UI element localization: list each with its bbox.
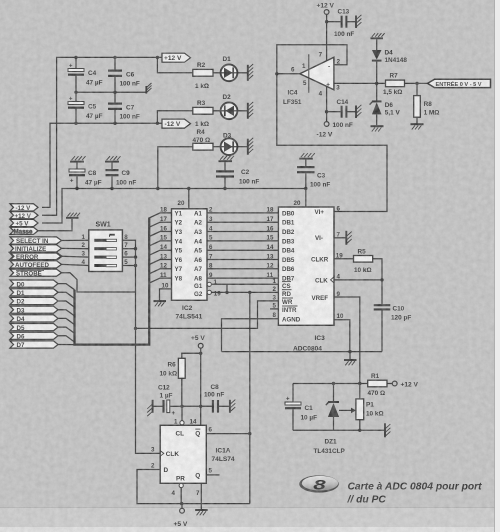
connector flag +12V [10, 212, 38, 220]
svg-text:1: 1 [214, 279, 218, 286]
svg-text:10 kΩ: 10 kΩ [160, 371, 178, 378]
wire pin4 supply [326, 87, 328, 112]
pin 20 IC2 [178, 189, 189, 209]
wire bus to IC2 pin12 [149, 269, 171, 274]
connector flag ERROR [10, 253, 62, 261]
node CS/RD net [248, 291, 251, 294]
ground above C8 [70, 156, 86, 161]
svg-text:12: 12 [160, 263, 167, 270]
node on +12V rail at C4 [74, 56, 77, 59]
svg-text:LF351: LF351 [283, 99, 302, 106]
wire R3 to D2 [213, 110, 221, 112]
ground at C14 [356, 105, 361, 118]
svg-text:D4: D4 [385, 49, 394, 56]
node +5V rail C9 [110, 187, 113, 190]
wire A4-DB3 [194, 235, 278, 246]
svg-text:Y1: Y1 [175, 210, 183, 217]
pin 10 IC2 to ground [160, 283, 172, 301]
svg-text:2: 2 [273, 286, 277, 293]
ground right of C8 [230, 400, 235, 413]
wire bus to IC2 pin11 [149, 278, 171, 283]
wire SW1 pin8 to common [122, 240, 160, 453]
wire ground mid rail [76, 91, 146, 93]
svg-text:6: 6 [337, 205, 341, 212]
svg-text:C2: C2 [241, 169, 250, 176]
svg-text:10: 10 [162, 283, 169, 290]
wire D input [137, 470, 250, 504]
capacitor C5 [68, 92, 103, 123]
pin G2 with bubble [194, 290, 278, 298]
node on +12V rail at C6 [113, 56, 116, 59]
resistor R8 [414, 83, 440, 123]
svg-text:D1: D1 [223, 56, 232, 63]
capacitor C6 [108, 57, 140, 92]
svg-text:2: 2 [337, 59, 341, 66]
svg-text:C3: C3 [317, 173, 326, 180]
svg-text:1: 1 [82, 234, 86, 241]
capacitor C7 [108, 92, 140, 123]
svg-text:-: - [328, 64, 330, 71]
dip switch SW1 [89, 222, 123, 272]
svg-text:C14: C14 [337, 99, 349, 106]
wire pin1 CL [181, 406, 183, 420]
svg-text:C1: C1 [305, 405, 314, 412]
svg-text:3: 3 [336, 85, 340, 92]
op-amp IC4 [283, 52, 341, 106]
svg-text:+12 V: +12 V [15, 213, 32, 220]
svg-text:+12 V: +12 V [164, 55, 182, 62]
node D4/D6/R7 [375, 82, 378, 85]
node +5V rail C3/IC3 pin20 [304, 187, 307, 190]
node SW1 pin6 [134, 255, 137, 258]
svg-text:R6: R6 [168, 362, 177, 369]
pin 5 Q stub [206, 468, 219, 475]
wire bus to IC2 pin18 [149, 213, 171, 218]
svg-text:ERROR: ERROR [16, 254, 39, 261]
wire output to ADC VI+ [277, 74, 387, 212]
svg-text:4: 4 [209, 225, 213, 232]
connector flag D2 [10, 297, 58, 305]
wire -12V to R3 [157, 111, 192, 124]
wire CS/RD net down to IC1A [249, 292, 251, 503]
svg-text:D2: D2 [223, 94, 232, 101]
svg-text:100 nF: 100 nF [239, 178, 259, 185]
capacitor C12 [153, 384, 182, 417]
capacitor C8 [69, 163, 102, 189]
wire A1-DB0 [194, 207, 278, 218]
pin 6 VI+ [315, 205, 341, 216]
pin 7 VI- [315, 232, 346, 243]
flip-flop IC1A 74LS74 [160, 425, 235, 483]
svg-text:D5: D5 [17, 325, 25, 332]
wire D2 to ground [237, 110, 247, 112]
svg-text:5: 5 [209, 468, 213, 475]
svg-text:SELECT IN: SELECT IN [16, 238, 49, 245]
svg-text:A1: A1 [194, 210, 202, 217]
wire bus to IC2 pin16 [149, 232, 171, 237]
svg-text:6: 6 [209, 244, 213, 251]
wire Masse to ground [38, 219, 72, 231]
svg-text:VI-: VI- [315, 235, 323, 242]
svg-text:20: 20 [178, 200, 185, 207]
svg-text:1: 1 [174, 418, 178, 425]
node pin14/C8 [199, 405, 202, 408]
capacitor C10 [374, 280, 412, 352]
connector flag -12V [10, 204, 38, 212]
diode D4 [372, 39, 407, 83]
node Q bar [248, 432, 251, 435]
svg-text:3: 3 [82, 251, 86, 258]
svg-text:1 µF: 1 µF [160, 392, 173, 399]
ground at R8 [411, 124, 424, 129]
ground at VI- [346, 231, 351, 245]
zener D6 [370, 83, 401, 125]
svg-text:D4: D4 [17, 316, 25, 323]
svg-text:4: 4 [82, 259, 86, 266]
connector flag STROBE [10, 269, 62, 277]
svg-text:A2: A2 [194, 220, 202, 227]
svg-text:5: 5 [209, 235, 213, 242]
ground at D3 [248, 138, 253, 155]
connector flag +5V [10, 219, 38, 227]
pin 19 CLKR [311, 253, 354, 264]
wire bus to IC2 pin14 [149, 250, 171, 255]
svg-text:RD: RD [282, 291, 291, 298]
pin 13 Y6 [160, 253, 183, 264]
ground line AGND [222, 351, 383, 353]
wire PR to +5V [180, 488, 182, 504]
svg-text:16: 16 [160, 225, 167, 232]
capacitor C13 [334, 9, 356, 38]
svg-text:14: 14 [267, 244, 274, 251]
wire +5V to pin14 [200, 353, 202, 425]
resistor R5 [354, 249, 373, 275]
svg-text:AUTOFEED: AUTOFEED [15, 262, 49, 269]
ground above C2 [219, 156, 235, 161]
svg-text:7: 7 [319, 52, 323, 59]
svg-text:R1: R1 [371, 373, 380, 380]
svg-text:D0: D0 [17, 281, 25, 288]
wire AUTOFEED to SW1 [62, 264, 89, 265]
wire D1 to ground [237, 72, 247, 74]
svg-text:+: + [69, 63, 73, 69]
node +5V split [199, 352, 202, 355]
pin 7 IC1A to ground [196, 483, 201, 509]
terminal +12V [317, 3, 335, 22]
ground at D2 [248, 102, 253, 119]
wire SW1 pin5 to common [122, 265, 135, 267]
wire D5 to bus [58, 327, 75, 333]
svg-text:R4: R4 [197, 129, 206, 136]
svg-text:A7: A7 [194, 266, 202, 273]
wire to C14 [327, 111, 341, 113]
wire SW1 pin7 to common [122, 248, 135, 250]
wire A2-DB1 [194, 216, 278, 227]
svg-text:IC2: IC2 [182, 305, 193, 312]
wire D1 to bus [58, 292, 75, 298]
wire +5V to R6 [182, 353, 201, 358]
wire SELECT IN to SW1 [62, 239, 89, 241]
svg-text:C5: C5 [88, 104, 97, 111]
svg-text:13: 13 [160, 253, 167, 260]
svg-text:// du PC: // du PC [347, 494, 387, 505]
svg-text:G1: G1 [194, 283, 203, 290]
node +5V rail C8 [75, 187, 78, 190]
svg-text:CL: CL [176, 430, 185, 437]
svg-text:14: 14 [160, 244, 167, 251]
node SW1 pin5 [134, 264, 137, 267]
node output [275, 72, 278, 75]
node +5V rail R4 branch [156, 187, 159, 190]
data bus trunk [75, 218, 150, 345]
svg-text:Y5: Y5 [175, 248, 183, 255]
svg-text:CLK: CLK [166, 451, 180, 458]
svg-text:+5 V: +5 V [191, 335, 205, 342]
svg-text:C13: C13 [338, 9, 350, 16]
svg-text:3: 3 [151, 447, 155, 454]
node +5V rail C2 [223, 187, 226, 190]
svg-text:16: 16 [267, 225, 274, 232]
svg-text:SW1: SW1 [96, 222, 111, 229]
svg-text:CLK: CLK [315, 278, 328, 285]
wire D3 to ground [237, 146, 247, 148]
ground above C9 [105, 156, 121, 161]
svg-text:8: 8 [313, 477, 326, 493]
wire R2 to D1 [213, 72, 221, 74]
svg-text:1 kΩ: 1 kΩ [195, 121, 209, 128]
svg-text:INTR: INTR [282, 307, 297, 314]
capacitor C3 [297, 160, 330, 189]
pin 2 RD [273, 286, 292, 298]
svg-text:TL431CLP: TL431CLP [314, 448, 346, 455]
ground at mid rail right [146, 83, 151, 94]
resistor R3 [193, 100, 213, 128]
adc IC3 ADC0804 [278, 207, 334, 353]
svg-text:100 nF: 100 nF [116, 179, 136, 186]
ground at D6 [371, 126, 384, 131]
connector flag D3 [10, 306, 58, 314]
svg-text:100 nF: 100 nF [310, 181, 330, 188]
svg-text:CS: CS [282, 283, 291, 290]
svg-text:100 nF: 100 nF [333, 122, 353, 129]
svg-text:Masse: Masse [14, 229, 33, 236]
wire +12V to R2 [157, 57, 192, 72]
connector flag AUTOFEED [10, 261, 62, 269]
svg-text:470 Ω: 470 Ω [368, 390, 386, 397]
svg-text:-12 V: -12 V [16, 205, 32, 212]
svg-text:C7: C7 [126, 105, 135, 112]
svg-text:2: 2 [151, 463, 155, 470]
terminal -12V [317, 112, 333, 139]
wire pin7 supply [326, 22, 328, 62]
wire +5V rail [42, 189, 306, 224]
wire to C13 [327, 21, 341, 23]
svg-text:VI+: VI+ [315, 209, 325, 216]
svg-text:R8: R8 [424, 101, 433, 108]
wire -12V rail [42, 123, 162, 207]
svg-text:D2: D2 [17, 299, 25, 306]
svg-text:+12 V: +12 V [401, 381, 419, 388]
pin 17 Y2 [160, 216, 183, 227]
svg-text:C10: C10 [393, 306, 405, 313]
svg-text:10 µF: 10 µF [301, 414, 318, 421]
pin 3 WR [136, 295, 294, 329]
svg-text:100 nF: 100 nF [204, 392, 224, 399]
svg-text:8: 8 [209, 263, 213, 270]
svg-text:R3: R3 [197, 100, 206, 107]
svg-text:17: 17 [160, 216, 167, 223]
wire pin3 input line [334, 82, 428, 84]
connector flag SELECT IN [10, 237, 62, 245]
pin 5 INTR [270, 303, 298, 315]
svg-text:1 MΩ: 1 MΩ [424, 110, 440, 117]
node R7/R8/entree [415, 82, 418, 85]
wire +5V to R4 [158, 147, 193, 189]
svg-text:7: 7 [196, 490, 200, 497]
svg-text:Carte à ADC 0804 pour port: Carte à ADC 0804 pour port [348, 481, 483, 492]
svg-text:D: D [164, 467, 169, 474]
badge figure 8 [299, 475, 339, 492]
svg-text:C8: C8 [211, 384, 220, 391]
svg-text:18: 18 [160, 207, 167, 214]
svg-text:-12 V: -12 V [165, 121, 181, 128]
svg-text:R7: R7 [390, 72, 399, 79]
svg-text:4: 4 [319, 90, 323, 97]
wire reference node line [293, 383, 368, 385]
ground at C13 [356, 15, 361, 28]
node P1 bottom [358, 429, 361, 432]
node on -12V rail at R3 branch [156, 122, 159, 125]
svg-text:8: 8 [273, 312, 277, 319]
connector flag D1 [10, 289, 58, 297]
svg-text:Y7: Y7 [175, 266, 183, 273]
capacitor C1 [285, 384, 317, 431]
wire D6 to bus [58, 336, 75, 342]
svg-text:15: 15 [267, 235, 274, 242]
svg-text:19: 19 [214, 290, 221, 297]
svg-text:1,5 kΩ: 1,5 kΩ [383, 89, 402, 96]
svg-text:100 nF: 100 nF [120, 81, 140, 88]
svg-text:+: + [69, 96, 73, 102]
svg-text:2: 2 [209, 207, 213, 214]
svg-text:A6: A6 [194, 257, 202, 264]
pin 1 CS [273, 278, 292, 290]
svg-text:10: 10 [337, 313, 344, 320]
svg-text:+: + [172, 411, 176, 417]
svg-text:Y4: Y4 [175, 238, 183, 245]
svg-text:STROBE: STROBE [16, 270, 42, 277]
svg-text:74LS74: 74LS74 [212, 456, 235, 463]
svg-text:12: 12 [267, 263, 274, 270]
wire A5-DB4 [194, 244, 278, 255]
pin 6 Q bar wire [206, 426, 250, 433]
ground at D1 [248, 64, 253, 81]
LED D3 [221, 132, 238, 155]
ground left of C12 [147, 400, 152, 416]
shunt regulator DZ1 TL431CLP [314, 384, 356, 455]
capacitor C14 [333, 99, 356, 129]
connector flag INITIALIZE [10, 245, 62, 253]
pin 11 Y8 [160, 272, 183, 283]
LED D1 [221, 56, 238, 81]
node mid rail C6 [113, 91, 116, 94]
svg-text:PR: PR [176, 475, 185, 482]
svg-text:+5 V: +5 V [16, 221, 30, 228]
svg-text:R2: R2 [197, 62, 206, 69]
node VREF line at R1 [358, 382, 361, 385]
svg-text:DB0: DB0 [282, 210, 295, 217]
svg-text:5: 5 [303, 80, 307, 87]
svg-text:6: 6 [209, 426, 213, 433]
ground at AGND line [344, 352, 357, 366]
wire D7 to bus [58, 344, 75, 346]
svg-text:IC1A: IC1A [216, 447, 231, 454]
pin 18 Y1 [160, 207, 183, 218]
wire A6-DB5 [194, 253, 278, 264]
svg-text:15: 15 [160, 235, 167, 242]
bubble pin4 PR [179, 483, 183, 487]
wire D0 to bus [58, 284, 75, 290]
terminal +5V top [191, 335, 205, 353]
ground at IC1A pin7 [195, 510, 208, 515]
resistor R7 [383, 72, 405, 96]
svg-text:13: 13 [267, 253, 274, 260]
svg-text:20: 20 [294, 200, 301, 207]
wire +12V rail [42, 57, 162, 215]
pin 16 Y3 [160, 225, 183, 236]
wire D4 to bus [58, 318, 75, 324]
svg-text:18: 18 [267, 207, 274, 214]
svg-text:C4: C4 [88, 70, 97, 77]
svg-text:DZ1: DZ1 [325, 439, 338, 446]
wire A7-DB6 [194, 263, 278, 274]
svg-text:120 pF: 120 pF [391, 315, 411, 322]
node on -12V rail at C5 [74, 122, 77, 125]
node on -12V rail at C7 [113, 122, 116, 125]
svg-text:DB3: DB3 [282, 238, 295, 245]
node +5V rail IC2 pin20 [187, 187, 190, 190]
wire RC node to C8 [182, 405, 212, 407]
wire SW1 pin6 to common [122, 256, 135, 258]
svg-text:DB6: DB6 [282, 266, 295, 273]
svg-text:Y6: Y6 [175, 257, 183, 264]
svg-text:R5: R5 [358, 249, 367, 256]
node SW1 pin7 [134, 247, 137, 250]
svg-text:Q: Q [195, 431, 200, 438]
svg-text:D7: D7 [17, 342, 25, 349]
svg-text:47 µF: 47 µF [85, 179, 102, 186]
wire R5 to CLK [373, 259, 382, 280]
power flag -12V [162, 119, 191, 128]
pin 4 CLK [315, 274, 382, 285]
pin 12 Y7 [160, 263, 183, 274]
connector flag D4 [10, 315, 58, 323]
terminal +5V bottom [174, 504, 188, 528]
ground for Masse [66, 213, 80, 218]
svg-text:D1: D1 [17, 290, 25, 297]
svg-text:74LS541: 74LS541 [176, 314, 203, 321]
svg-text:A3: A3 [194, 229, 202, 236]
ground at IC2 pin10 [154, 301, 167, 306]
pin 10 IC3 [334, 313, 350, 351]
node G2 net [225, 291, 228, 294]
ground at P1 bottom [385, 423, 390, 437]
svg-text:AGND: AGND [282, 316, 301, 323]
svg-text:DB1: DB1 [282, 220, 295, 227]
svg-text:11: 11 [160, 272, 167, 279]
pin 20 IC3 [294, 189, 306, 208]
svg-text:100 nF: 100 nF [120, 114, 140, 121]
